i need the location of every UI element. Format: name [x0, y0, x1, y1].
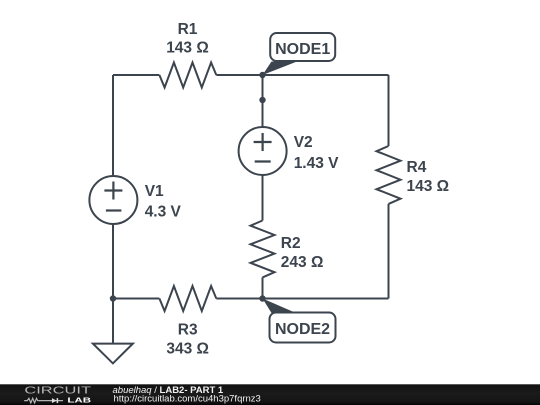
wire NODE1 junction down to mid dot [262, 75, 264, 127]
wire V1 to bottom-left junction [112, 224, 114, 299]
svg-text:V1: V1 [145, 183, 164, 200]
wire junction to ground [112, 299, 114, 344]
junction dot mid wire above V2 [259, 97, 265, 103]
junction dot bottom-left [110, 295, 116, 301]
footer bar [0, 384, 540, 405]
junction dot NODE2 [259, 295, 265, 301]
wire left vertical top (corner to V1) [112, 75, 114, 176]
svg-text:R3: R3 [178, 322, 198, 339]
wire R4 to bottom-right corner [388, 204, 390, 299]
junction dot NODE1 [259, 72, 265, 78]
resistor R1 [159, 63, 216, 88]
CircuitLab logo resistor zigzag [24, 398, 39, 403]
V1 plus sign [104, 182, 122, 200]
svg-text:NODE2: NODE2 [275, 321, 330, 338]
svg-text:4.3 V: 4.3 V [145, 204, 182, 221]
resistor R2 [251, 221, 275, 278]
node NODE1 callout box [270, 33, 335, 61]
wire V2 to R2 [262, 175, 264, 221]
V2 plus sign [254, 133, 272, 151]
svg-text:LAB: LAB [67, 396, 92, 405]
svg-text:343 Ω: 343 Ω [166, 340, 209, 357]
svg-text:1.43 V: 1.43 V [294, 155, 339, 172]
svg-text:CIRCUIT: CIRCUIT [24, 385, 91, 396]
CircuitLab logo diode [52, 398, 57, 403]
resistor R4 [377, 146, 401, 204]
wire right vertical (corner to R4) [388, 75, 390, 146]
wire bottom-right corner to NODE2 junction [263, 298, 389, 300]
svg-text:R4: R4 [407, 159, 427, 176]
wire top-left horizontal (V1 to R1) [113, 74, 159, 76]
V2 minus sign [255, 160, 271, 162]
wire R3 to bottom-left junction [113, 298, 159, 300]
svg-text:R2: R2 [281, 235, 301, 252]
wire R1 to NODE1 junction [216, 74, 262, 76]
CircuitLab logo wire to diode [39, 400, 63, 402]
svg-text:143 Ω: 143 Ω [166, 40, 209, 57]
svg-text:http://circuitlab.com/cu4h3p7f: http://circuitlab.com/cu4h3p7fqrnz3 [114, 394, 261, 405]
NODE1 callout pointer [263, 62, 298, 76]
resistor R3 [159, 286, 216, 311]
wire NODE2 junction to R3 [216, 298, 262, 300]
svg-text:V2: V2 [294, 134, 313, 151]
V1 minus sign [106, 209, 122, 211]
wire NODE1 junction to top-right corner [263, 74, 389, 76]
wire R2 to NODE2 junction [262, 277, 264, 298]
node NODE2 callout box [270, 313, 336, 343]
svg-text:NODE1: NODE1 [275, 41, 330, 58]
svg-text:243 Ω: 243 Ω [281, 254, 324, 271]
svg-text:R1: R1 [178, 21, 198, 38]
NODE2 callout pointer [263, 299, 297, 314]
voltage source V1 [89, 176, 137, 224]
svg-text:143 Ω: 143 Ω [407, 178, 450, 195]
ground symbol [93, 344, 133, 364]
voltage source V2 [239, 127, 287, 175]
